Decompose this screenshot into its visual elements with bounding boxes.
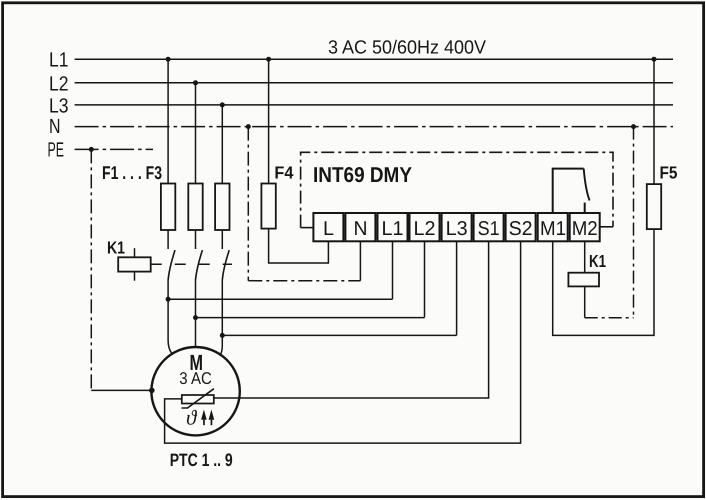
relay coil K1	[568, 273, 599, 287]
svg-text:K1: K1	[589, 251, 606, 271]
wire node U to motor	[168, 299, 172, 353]
wire L1 bus	[75, 58, 673, 60]
svg-text:L1: L1	[49, 49, 69, 72]
wire node U to terminal L1	[168, 298, 392, 300]
junction dot node U	[166, 297, 171, 302]
wire terminal L1 drop	[392, 241, 394, 299]
label PTC 1 .. 9	[170, 450, 233, 470]
terminal label N	[354, 218, 368, 240]
svg-text:L: L	[323, 218, 334, 240]
svg-text:L1: L1	[382, 218, 404, 240]
label 3 AC 50/60Hz 400V	[328, 37, 486, 58]
terminal box S2	[506, 213, 536, 241]
wire node V to motor	[195, 318, 197, 348]
junction dot L3/F3	[220, 102, 225, 107]
relay contact above M1/M2	[553, 169, 590, 213]
fuse F1	[161, 184, 175, 231]
terminal label L1	[382, 218, 404, 240]
terminal label L2	[414, 218, 436, 240]
junction dot L1/F5	[652, 57, 657, 62]
wire L3 to fuse F3	[221, 105, 223, 184]
label K1 (relay coil right)	[589, 251, 606, 271]
INT69 DMY module border (dash-dot)	[301, 152, 613, 227]
junction dot PE bus	[89, 147, 94, 152]
wire F2 to contact K1.2	[195, 230, 197, 249]
wire node W to motor	[220, 335, 223, 355]
terminal label L3	[446, 218, 468, 240]
node N label	[49, 115, 61, 138]
wire N to N-terminal (dash-dot drop)	[247, 127, 249, 281]
wire N horizontal dash-dot to terminal N	[248, 280, 360, 282]
arrows up (theta rising)	[201, 410, 214, 426]
svg-text:K1: K1	[107, 237, 125, 257]
label M (motor)	[190, 350, 204, 375]
wire N bus to coil return (dash-dot)	[633, 127, 635, 318]
wire terminal M2 to relay coil K1	[584, 241, 586, 272]
svg-text:N: N	[49, 115, 61, 138]
terminal box N	[345, 213, 375, 241]
wire F4 to terminal L	[269, 229, 329, 263]
junction dot node W	[220, 333, 225, 338]
svg-text:L3: L3	[446, 218, 468, 240]
terminal box L3	[442, 213, 472, 241]
fuse F4	[261, 184, 275, 229]
terminal label L	[323, 218, 334, 240]
terminal label M2	[572, 218, 598, 240]
junction dot motor frame/PE	[149, 388, 155, 394]
motor M1 circle	[151, 347, 239, 435]
node PE label	[48, 139, 65, 162]
terminal label S2	[509, 218, 533, 240]
fuse F5	[647, 184, 661, 229]
junction dot L1/F1	[166, 57, 171, 62]
contact K1.2 blade	[196, 250, 203, 280]
label F4	[274, 163, 293, 183]
terminal label M1	[540, 218, 566, 240]
terminal box M2	[570, 213, 600, 241]
svg-text:S1: S1	[478, 218, 500, 240]
label F1...F3	[102, 162, 162, 183]
wire contact3 to node W	[221, 280, 223, 335]
junction dot L1/F4	[266, 57, 271, 62]
wire L3 bus	[75, 104, 673, 106]
label F5	[660, 163, 678, 183]
label K1 (contactor coil)	[107, 237, 125, 257]
fuse F3	[215, 184, 229, 231]
wire terminal L3 drop	[456, 241, 458, 335]
svg-text:N: N	[354, 218, 368, 240]
label INT69 DMY	[313, 163, 412, 187]
wire F5 to terminal M1	[553, 229, 654, 335]
wire contact1 to node U	[167, 280, 169, 299]
svg-text:L3: L3	[49, 94, 69, 117]
contact K1.1 blade	[168, 250, 175, 280]
wire F1 to contact K1.1	[167, 230, 169, 249]
wire L2 to fuse F2	[195, 83, 197, 184]
svg-text:L2: L2	[414, 218, 436, 240]
svg-text:3 AC 50/60Hz 400V: 3 AC 50/60Hz 400V	[328, 37, 486, 58]
wire N bus	[75, 126, 673, 128]
svg-text:F1 . . . F3: F1 . . . F3	[102, 162, 162, 183]
node L1 label	[49, 49, 69, 72]
wire node V to terminal L2	[196, 317, 425, 319]
svg-text:PTC 1 .. 9: PTC 1 .. 9	[170, 450, 233, 470]
PTC thermistor	[182, 389, 214, 408]
terminal box L1	[378, 213, 408, 241]
wire contact2 to node V	[195, 280, 197, 318]
svg-text:PE: PE	[48, 139, 65, 162]
wire coil K1 to N (solid then dash-dot)	[585, 286, 634, 317]
svg-text:M1: M1	[540, 218, 566, 240]
wire node W to terminal L3	[222, 334, 456, 336]
svg-text:3 AC: 3 AC	[179, 369, 212, 388]
linkage dashed K1	[151, 263, 232, 265]
wire terminal L2 drop	[424, 241, 426, 317]
junction dot L2/F2	[193, 80, 198, 85]
wire PE bus	[75, 148, 153, 150]
svg-text:F4: F4	[274, 163, 293, 183]
wire F3 to contact K1.3	[221, 230, 223, 249]
svg-text:F5: F5	[660, 163, 678, 183]
wire terminal N drop	[359, 241, 361, 280]
wire L1 to fuse F4	[268, 59, 270, 183]
svg-text:M2: M2	[572, 218, 598, 240]
terminal label S1	[478, 218, 500, 240]
junction dot N/F5 return	[631, 124, 636, 129]
svg-text:S2: S2	[509, 218, 533, 240]
label 3 AC (motor)	[179, 369, 212, 388]
junction dot node V	[193, 315, 198, 320]
fuse F2	[188, 184, 202, 231]
wire L1 to fuse F1	[167, 59, 169, 183]
label theta	[186, 406, 198, 430]
node L2 label	[49, 72, 69, 95]
wire L1 to fuse F5	[653, 59, 655, 184]
junction dot N drop	[246, 124, 251, 129]
node L3 label	[49, 94, 69, 117]
wire terminal S1 to PTC	[214, 241, 489, 398]
contact K1.3 blade	[222, 250, 229, 280]
terminal box L	[313, 213, 343, 241]
terminal box S1	[474, 213, 504, 241]
wire L2 bus	[75, 82, 673, 84]
svg-text:ϑ: ϑ	[186, 406, 198, 430]
terminal box M1	[538, 213, 568, 241]
wire terminal S2 to PTC	[165, 241, 521, 443]
terminal box L2	[410, 213, 440, 241]
svg-text:L2: L2	[49, 72, 69, 95]
svg-text:INT69 DMY: INT69 DMY	[313, 163, 412, 187]
contactor coil K1	[118, 248, 151, 281]
wire PE to motor frame (dash-dot down, solid right)	[91, 149, 151, 390]
